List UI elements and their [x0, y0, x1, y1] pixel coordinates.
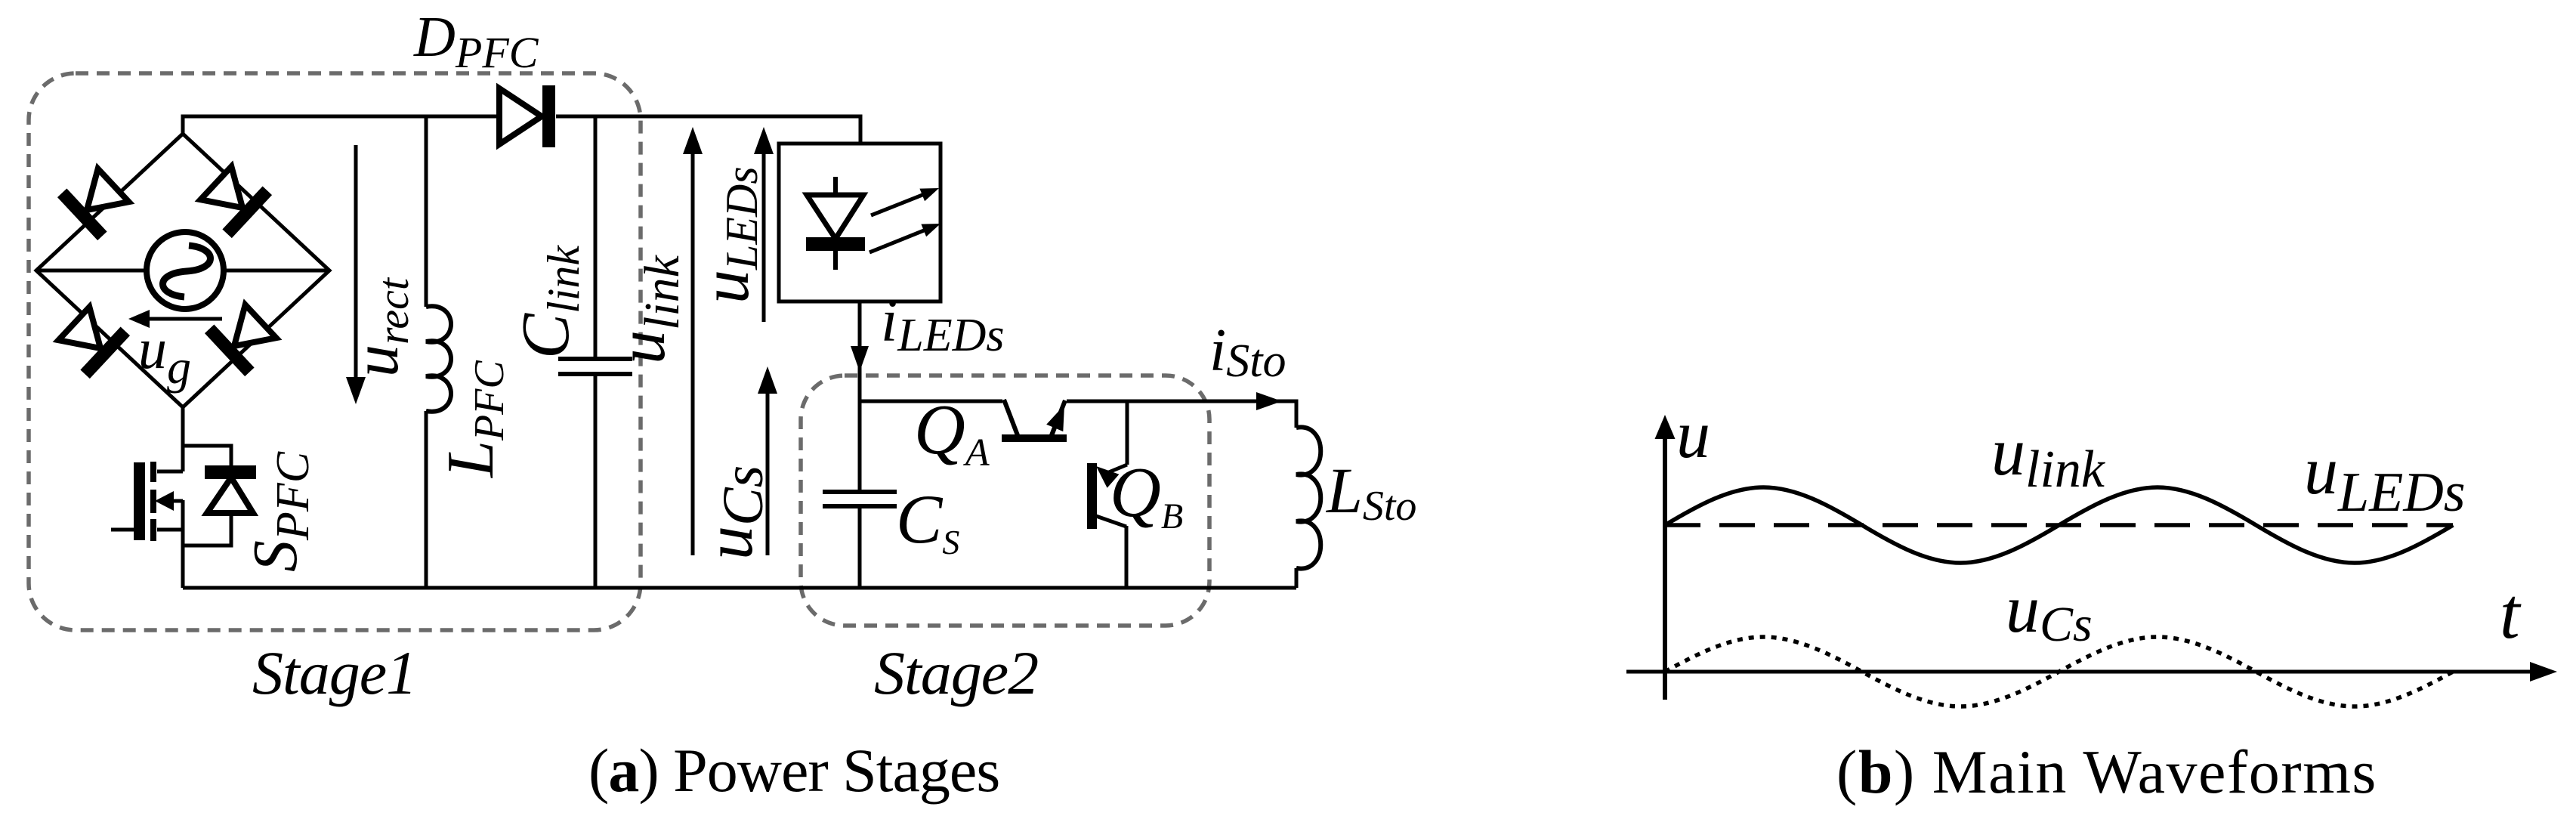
wire LSto bottom — [1295, 568, 1299, 588]
svg-text:ulink: ulink — [604, 254, 690, 364]
LED anode stub — [833, 177, 838, 196]
mosfet SPFC drain stub — [157, 470, 183, 474]
curve ulink (solid sine) — [1665, 487, 2453, 563]
mosfet SPFC channel segments — [150, 462, 156, 541]
capacitor Clink plates — [558, 359, 632, 374]
svg-text:CS: CS — [896, 481, 959, 561]
wire LED block to stage2 node with iLEDs arrow — [851, 301, 869, 401]
wire Clink branch upper — [594, 116, 598, 357]
transistor QB collector diagonal with arrow (pointing to base) — [1096, 465, 1127, 488]
transistor QA base bar — [1002, 434, 1067, 442]
stage 1 boundary (dashed box) — [29, 73, 641, 630]
svg-text:Stage1: Stage1 — [252, 638, 416, 707]
svg-text:t: t — [2500, 573, 2522, 654]
arrow ulink (pointing up) — [683, 127, 703, 555]
curve uCs (dotted sine) — [1665, 637, 2453, 706]
diode DPFC cathode bar — [542, 85, 555, 147]
bridge diode D3 (bottom-left arm) — [54, 302, 130, 379]
svg-text:ulink: ulink — [1991, 415, 2106, 499]
svg-text:QA: QA — [914, 391, 990, 474]
svg-text:(b) Main Waveforms: (b) Main Waveforms — [1836, 737, 2377, 806]
transistor QA emitter diagonal — [1004, 400, 1018, 435]
diode DPFC triangle — [499, 88, 542, 144]
arrow for ug polarity (pointing left) — [128, 310, 222, 328]
inductor LPFC coil (3 loops) — [426, 306, 451, 411]
transistor QA arrow (pointing up-right) — [1046, 405, 1064, 434]
svg-text:urect: urect — [339, 277, 418, 377]
wire CS branch lower — [858, 508, 862, 588]
svg-text:LPFC: LPFC — [434, 360, 513, 479]
wire top bus from bridge to LED block — [183, 116, 860, 144]
mosfet SPFC gate lead — [111, 528, 134, 532]
inductor LSto coil (3 loops) — [1296, 427, 1320, 568]
wire Clink branch lower — [594, 376, 598, 588]
svg-text:iLEDs: iLEDs — [881, 288, 1005, 361]
svg-text:uLEDs: uLEDs — [688, 166, 767, 304]
wire LPFC branch lower — [425, 411, 428, 588]
arrow uLEDs (pointing up) — [754, 127, 774, 322]
bridge diode D4 (bottom-right arm) — [205, 300, 281, 376]
arrow urect (pointing down) — [346, 145, 366, 404]
transistor QA collector diagonal — [1052, 400, 1065, 435]
LED cathode stub — [833, 251, 838, 270]
LED cathode bar — [806, 237, 865, 251]
svg-text:Clink: Clink — [508, 245, 588, 359]
wire bridge horizontal through AC source — [36, 269, 329, 273]
mosfet SPFC body arrow (pointing left into channel) — [155, 491, 183, 511]
arrow uCs (pointing up) — [758, 366, 777, 555]
wire CS branch upper — [858, 401, 862, 490]
transistor QB emitter diagonal — [1096, 516, 1126, 527]
AC source ug (circle with sine glyph) — [147, 232, 224, 309]
waveform u axis (vertical, arrow up) — [1655, 415, 1676, 700]
LED light emission arrow 2 — [869, 224, 941, 252]
body diode of SPFC triangle (pointing up) — [207, 478, 253, 513]
svg-text:u: u — [1676, 397, 1710, 472]
LED block box — [779, 144, 941, 301]
LED light emission arrow 1 — [871, 188, 939, 215]
svg-text:LSto: LSto — [1325, 454, 1416, 530]
svg-text:uCs: uCs — [692, 465, 775, 560]
line uLEDs (dashed average level) — [1665, 523, 2453, 527]
svg-text:iSto: iSto — [1209, 317, 1286, 387]
body diode of SPFC cathode bar — [205, 465, 256, 479]
stage 2 boundary (dashed box) — [801, 376, 1209, 626]
capacitor CS plates — [823, 492, 897, 506]
svg-text:uLEDs: uLEDs — [2304, 434, 2466, 524]
mosfet SPFC source stub — [157, 528, 183, 532]
wire stage2 top right segment with iSto arrow — [1067, 392, 1296, 428]
LED triangle (pointing down) — [807, 195, 863, 239]
svg-text:QB: QB — [1110, 453, 1183, 536]
mosfet SPFC gate plate — [134, 462, 145, 540]
svg-text:Stage2: Stage2 — [874, 638, 1038, 707]
svg-text:ug: ug — [138, 317, 191, 394]
wire QB emitter to bottom bus — [1125, 526, 1129, 588]
transistor QB base bar — [1087, 463, 1097, 529]
wire QB collector from top bus — [1126, 401, 1129, 465]
diode bridge diamond outline — [36, 134, 329, 407]
wire bottom bus (return rail) — [183, 586, 1296, 590]
svg-text:DPFC: DPFC — [413, 5, 539, 77]
wire LPFC branch upper — [425, 116, 428, 307]
wire stage2 top left segment — [860, 400, 1002, 403]
bridge diode D2 (top-right arm) — [196, 162, 272, 238]
waveform t axis (horizontal, arrow right) — [1626, 662, 2557, 682]
svg-text:(a) Power Stages: (a) Power Stages — [588, 736, 999, 805]
svg-text:uCs: uCs — [2006, 572, 2093, 652]
wire bridge bottom to SPFC drain node — [183, 407, 231, 588]
bridge diode D1 (top-left arm) — [57, 164, 134, 240]
